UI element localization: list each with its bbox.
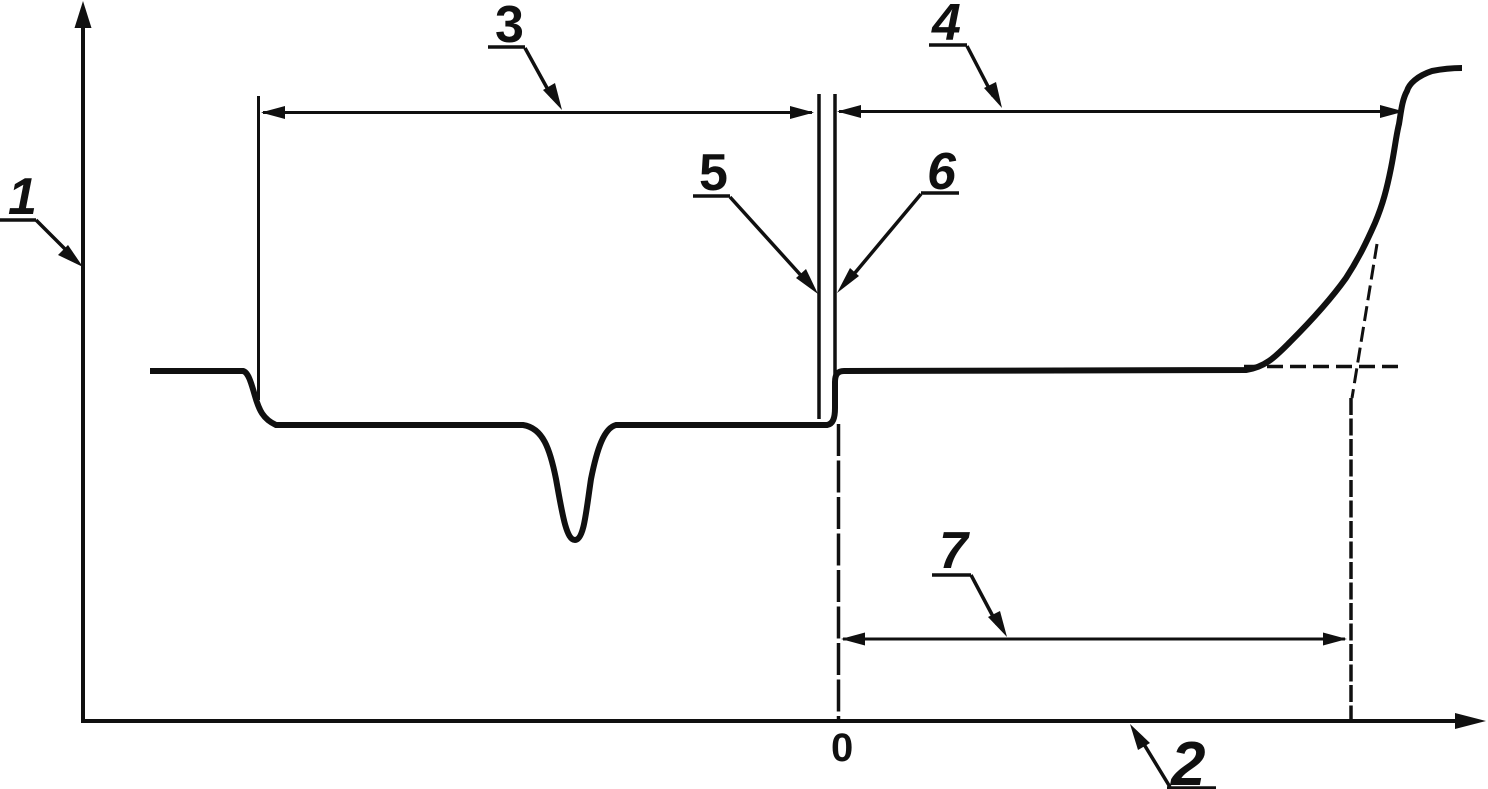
svg-text:2: 2 xyxy=(1170,730,1205,789)
svg-text:4: 4 xyxy=(931,0,961,52)
svg-text:5: 5 xyxy=(699,144,728,202)
svg-text:7: 7 xyxy=(939,522,970,580)
svg-text:1: 1 xyxy=(8,168,37,226)
svg-text:0: 0 xyxy=(831,726,853,770)
svg-text:6: 6 xyxy=(927,143,957,201)
svg-text:3: 3 xyxy=(495,0,524,54)
